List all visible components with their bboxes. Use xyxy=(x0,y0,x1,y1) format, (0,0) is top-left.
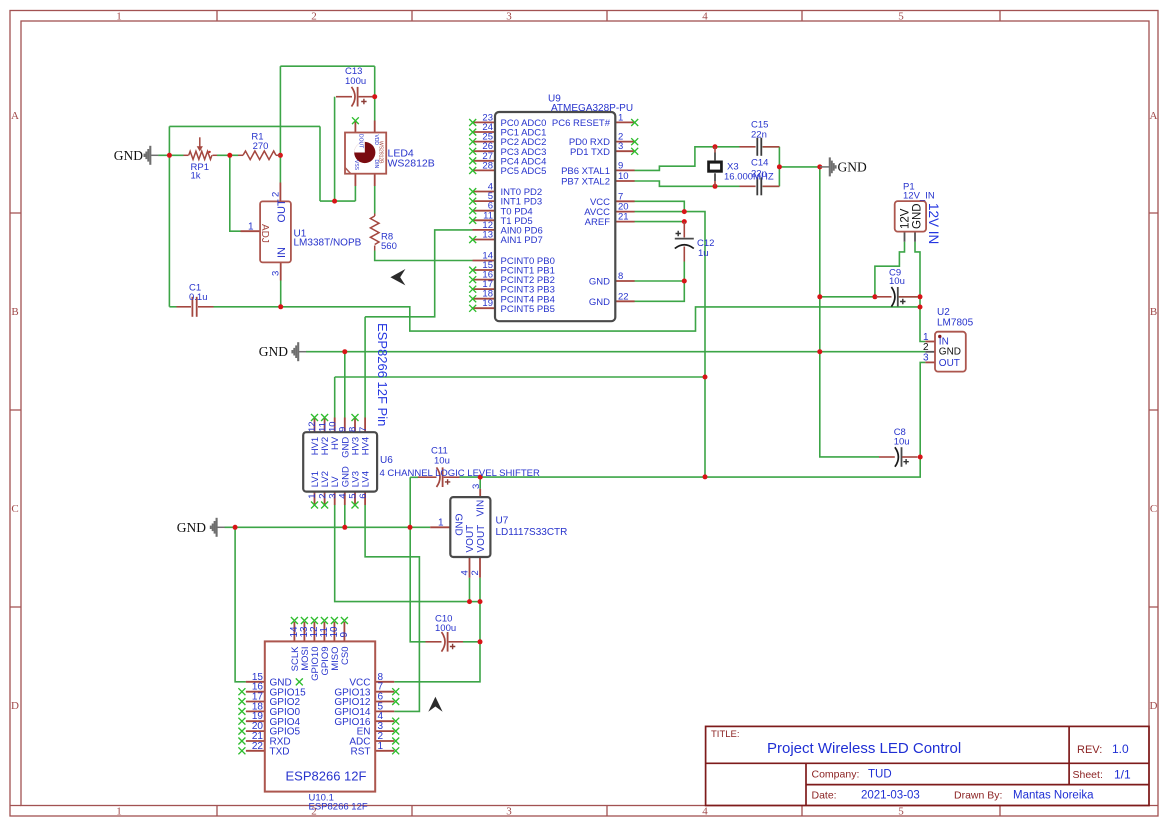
level shifter U6 no-connect X marks xyxy=(311,414,359,509)
junction AREF / C12 column xyxy=(682,219,687,224)
ground GND3 xyxy=(211,518,225,537)
module top pin names rotated xyxy=(290,646,351,681)
svg-text:1u: 1u xyxy=(698,248,709,259)
svg-text:GND: GND xyxy=(939,347,961,358)
module left pin names xyxy=(270,677,307,757)
wire C12 bottom to GND pin8 xyxy=(635,262,685,302)
junction U7 VOUT pin4 / 3V3 row xyxy=(467,599,472,604)
level shifter U6 top pin numbers xyxy=(307,421,369,432)
svg-text:C14: C14 xyxy=(751,158,768,169)
junction 5V row / VCC column xyxy=(703,474,708,479)
svg-text:LM338T/NOPB: LM338T/NOPB xyxy=(294,238,362,249)
junction GND3 row / U7 GND xyxy=(408,525,413,530)
svg-text:13: 13 xyxy=(482,230,493,241)
svg-text:12V_IN: 12V_IN xyxy=(903,191,935,202)
svg-text:5: 5 xyxy=(898,806,904,818)
wire C11 left stub xyxy=(410,476,418,478)
svg-text:DOUT: DOUT xyxy=(357,134,363,148)
svg-text:5: 5 xyxy=(898,11,904,23)
svg-text:Project Wireless LED Control: Project Wireless LED Control xyxy=(767,740,961,757)
junction C13 left column / LED4 VSS row xyxy=(332,199,337,204)
MCU U9 pin stubs right xyxy=(615,122,634,301)
svg-text:ESP8266 12F Pin: ESP8266 12F Pin xyxy=(375,323,390,426)
capacitor C11 10u xyxy=(418,467,460,487)
ground GND1 xyxy=(145,146,159,165)
wire AREF row xyxy=(635,221,685,223)
no-connect X inside ESP next to GND xyxy=(296,678,303,685)
svg-text:IN: IN xyxy=(276,247,288,258)
wire GND2 row xyxy=(306,351,925,353)
svg-text:1: 1 xyxy=(378,741,384,752)
svg-text:2: 2 xyxy=(271,192,282,197)
capacitor C10 100u xyxy=(426,632,464,652)
svg-text:4: 4 xyxy=(702,11,708,23)
wire C13 left vertical xyxy=(334,97,336,201)
svg-text:GND: GND xyxy=(589,277,610,288)
wire AVCC row xyxy=(635,211,685,213)
svg-text:GND: GND xyxy=(114,148,143,163)
wire GND pin8 row xyxy=(635,280,685,282)
wire OUT net vertical x280 xyxy=(279,66,281,182)
title block xyxy=(706,726,1149,805)
wire RP1 tap to U1 ADJ xyxy=(230,155,241,231)
svg-text:21: 21 xyxy=(618,212,629,223)
junction GND pin8 / C12 bottom xyxy=(682,279,687,284)
wire LED4 DIN down to R8 xyxy=(374,186,376,214)
svg-text:19: 19 xyxy=(482,298,493,309)
svg-text:9: 9 xyxy=(339,632,350,638)
wire LED4 VSS stub to row xyxy=(354,186,356,201)
level shifter U6 bottom pin numbers xyxy=(307,494,369,499)
MCU U9 left pin numbers xyxy=(482,112,493,309)
wire C13 right to dot xyxy=(373,96,375,98)
svg-text:WS2812B: WS2812B xyxy=(377,141,383,164)
wire GND4 vertical down to C8 xyxy=(820,167,879,457)
svg-text:TITLE:: TITLE: xyxy=(711,729,740,740)
wire GND3 row xyxy=(225,526,431,528)
ground GND2 xyxy=(292,342,306,361)
capacitor C15 22n xyxy=(740,138,780,156)
module U10.1 ESP8266 12F pin stubs top xyxy=(294,622,344,641)
MCU U9 right pin names xyxy=(552,118,611,308)
junction AVCC / C12 top xyxy=(682,209,687,214)
svg-text:1: 1 xyxy=(618,112,623,123)
svg-text:ADJ: ADJ xyxy=(259,224,270,243)
cursor arrow near ESP GPIO14 xyxy=(428,697,442,712)
regulator U2 body xyxy=(935,332,966,372)
wire top row y66 xyxy=(280,65,374,67)
svg-text:2: 2 xyxy=(311,11,317,23)
capacitor C14 22n xyxy=(740,177,780,195)
svg-text:3: 3 xyxy=(271,271,282,276)
wire C13 dot down to LED4 VDD xyxy=(374,66,376,120)
capacitor C8 10u xyxy=(879,447,918,467)
wire GND1 row left segment xyxy=(158,154,183,156)
junction GND2 row / GND4 column xyxy=(817,349,822,354)
wire U6 HV vertical xyxy=(334,377,336,418)
wire U9 pin9 to crystal xyxy=(635,147,740,171)
resistor R8 560 xyxy=(370,214,379,251)
svg-text:2021-03-03: 2021-03-03 xyxy=(861,790,920,802)
wire U6 LV vertical to 3V3 row xyxy=(335,505,470,602)
module U10.1 pin stubs left xyxy=(246,682,265,751)
svg-text:D: D xyxy=(1150,700,1158,712)
no-connect X on LED4 DOUT xyxy=(352,117,359,124)
svg-text:1: 1 xyxy=(438,517,444,528)
svg-text:TXD: TXD xyxy=(270,746,290,757)
svg-text:4: 4 xyxy=(702,806,708,818)
resistor R1 270 xyxy=(238,151,280,160)
svg-text:PB7 XTAL2: PB7 XTAL2 xyxy=(561,177,610,188)
svg-text:2: 2 xyxy=(470,570,481,575)
junction C9 left / P1 12V xyxy=(872,294,877,299)
regulator U7 pin stubs xyxy=(430,489,480,578)
svg-text:1k: 1k xyxy=(191,171,201,182)
wire U9 pin10 to crystal xyxy=(635,181,740,186)
level shifter U6 pin stubs xyxy=(315,418,366,506)
wire C8 to U2 OUT xyxy=(920,362,925,457)
resistor RP1 1k potentiometer xyxy=(184,137,218,159)
wire 12V row xyxy=(214,307,921,331)
svg-text:U2: U2 xyxy=(937,307,950,318)
junction GND2 row / U6 GND top xyxy=(342,349,347,354)
wire C10 right xyxy=(463,641,480,643)
wire U6 GND bottom vertical xyxy=(344,505,346,527)
wire C11 left corner xyxy=(410,477,425,642)
svg-text:1: 1 xyxy=(116,11,122,23)
svg-text:28: 28 xyxy=(482,160,493,171)
svg-text:9: 9 xyxy=(618,160,623,171)
wire AVCC to long vertical xyxy=(684,212,705,477)
svg-text:1: 1 xyxy=(248,221,254,232)
svg-text:RST: RST xyxy=(351,746,371,757)
capacitor C13 100u xyxy=(336,87,373,107)
junction 12V row / U2 IN column xyxy=(918,305,923,310)
svg-text:PCINT5 PB5: PCINT5 PB5 xyxy=(501,304,555,315)
wire LED4 VSS row xyxy=(320,200,355,202)
junction GND row / C1 branch xyxy=(167,153,172,158)
wire vertical x320 down to LED row xyxy=(319,126,321,201)
svg-text:22: 22 xyxy=(618,291,629,302)
frame row labels xyxy=(11,110,1158,712)
regulator U7 body xyxy=(450,497,490,557)
wire 3V3 riser xyxy=(470,601,481,603)
svg-text:LV4: LV4 xyxy=(361,471,372,487)
svg-text:AIN1 PD7: AIN1 PD7 xyxy=(501,235,543,246)
junction C11 right / U7 VIN xyxy=(478,475,483,480)
wire C9 row left xyxy=(820,296,876,298)
svg-text:22n: 22n xyxy=(751,130,767,141)
wire U7 VOUT pins down xyxy=(470,578,481,602)
svg-text:12V IN: 12V IN xyxy=(926,203,941,244)
wire U6 HV4 vertical xyxy=(364,317,366,418)
cursor arrow near U9 pin14 xyxy=(390,269,405,285)
capacitor C12 1u xyxy=(675,222,694,262)
svg-text:Date:: Date: xyxy=(812,790,837,802)
wire U6 LV4 to GPIO14 xyxy=(365,505,419,711)
svg-text:D: D xyxy=(11,700,19,712)
svg-text:12V: 12V xyxy=(899,208,911,229)
junction C10 right / 3V3 column xyxy=(478,639,483,644)
svg-text:6: 6 xyxy=(358,494,369,499)
module right pin numbers xyxy=(378,672,384,752)
svg-text:CS0: CS0 xyxy=(340,647,351,665)
wire U6 GND top vertical xyxy=(344,352,346,418)
module U10.1 ESP8266 body xyxy=(265,641,375,791)
wire row y126 xyxy=(169,125,320,127)
svg-text:PC6 RESET#: PC6 RESET# xyxy=(552,118,611,129)
wire C1 left xyxy=(169,306,176,308)
svg-text:VOUT: VOUT xyxy=(476,525,487,553)
wire GND3 to ESP GND pin xyxy=(235,527,246,682)
junction RP1-R1 / U1 ADJ tap xyxy=(227,153,232,158)
svg-text:270: 270 xyxy=(253,141,269,152)
wire RP1 to R1 xyxy=(217,154,238,156)
wire R8 bottom to U9 pin14 xyxy=(375,251,473,261)
junction C9 left / GND4 column xyxy=(817,294,822,299)
svg-text:4: 4 xyxy=(459,570,470,575)
svg-text:B: B xyxy=(11,306,18,318)
svg-text:3: 3 xyxy=(506,806,512,818)
svg-text:PC5 ADC5: PC5 ADC5 xyxy=(501,166,547,177)
svg-text:22: 22 xyxy=(252,741,264,752)
junction C9 right / P1 GND column xyxy=(918,294,923,299)
level shifter U6 top pin names xyxy=(310,436,372,458)
junction U7 VOUT pin2 / 3V3 row xyxy=(478,599,483,604)
wire vertical GND row to C1 left xyxy=(168,126,170,306)
svg-text:PD1 TXD: PD1 TXD xyxy=(570,147,610,158)
svg-text:REV:: REV: xyxy=(1077,744,1102,756)
wire C9 right to riser xyxy=(899,296,920,298)
wire VCC pin7 to C12 column xyxy=(635,201,685,211)
svg-text:GND: GND xyxy=(589,297,610,308)
wire HV row y377 xyxy=(335,376,705,378)
junction C8 right / U2 OUT column xyxy=(918,455,923,460)
regulator U1 LM338T/NOPB xyxy=(241,183,291,281)
module U10.1 pin stubs right xyxy=(375,682,394,751)
svg-text:Mantas Noreika: Mantas Noreika xyxy=(1013,790,1094,802)
junction C13 right / LED4 VDD xyxy=(372,94,377,99)
svg-text:1.0: 1.0 xyxy=(1112,742,1129,756)
module left pin numbers xyxy=(252,672,264,752)
junction XTAL1 / C15 xyxy=(713,144,718,149)
svg-text:100u: 100u xyxy=(435,623,456,634)
ground GND4 xyxy=(820,157,836,176)
svg-text:100u: 100u xyxy=(345,76,366,87)
svg-text:A: A xyxy=(11,110,19,122)
MCU U9 ATMEGA328P-PU pin stubs left xyxy=(473,122,496,308)
junction GND3 row / ESP GND column xyxy=(233,525,238,530)
svg-text:0.1u: 0.1u xyxy=(189,292,208,303)
wire C15 row into vertical xyxy=(763,147,780,187)
svg-text:OUT: OUT xyxy=(276,199,288,223)
svg-text:VIN: VIN xyxy=(476,500,487,517)
svg-text:7: 7 xyxy=(358,427,369,432)
svg-text:VOUT: VOUT xyxy=(465,525,476,553)
svg-text:4 CHANNEL LOGIC LEVEL SHIFTER: 4 CHANNEL LOGIC LEVEL SHIFTER xyxy=(380,468,540,479)
svg-text:Drawn By:: Drawn By: xyxy=(954,790,1002,802)
svg-text:3: 3 xyxy=(923,353,929,364)
MCU U9 body xyxy=(495,112,615,321)
MCU U9 no-connect X marks left xyxy=(469,119,476,312)
svg-text:A: A xyxy=(1150,110,1158,122)
svg-text:10u: 10u xyxy=(434,456,450,467)
frame column labels top xyxy=(116,11,904,23)
regulator U2 LM7805 pin stubs xyxy=(925,342,935,363)
svg-text:LM7805: LM7805 xyxy=(937,318,974,329)
MCU U9 right pin numbers xyxy=(618,112,629,302)
wire 5V row y477 xyxy=(460,457,921,477)
junction GND3 row / U6 GND bottom xyxy=(342,525,347,530)
svg-text:PB6 XTAL1: PB6 XTAL1 xyxy=(561,166,610,177)
junction GND4 column top xyxy=(817,164,822,169)
capacitor C1 0.1u xyxy=(177,297,214,317)
MCU U9 no-connect X marks right xyxy=(631,119,638,155)
svg-text:ESP8266 12F: ESP8266 12F xyxy=(309,802,368,813)
wire P1 GND pin path xyxy=(915,242,925,342)
junction R1 right / U1 OUT column xyxy=(278,153,283,158)
svg-text:10u: 10u xyxy=(894,437,910,448)
MCU U9 left pin names xyxy=(501,118,555,315)
wire crystal caps right vertical xyxy=(778,147,780,187)
svg-text:16.000MHZ: 16.000MHZ xyxy=(724,172,774,183)
frame column labels bottom xyxy=(116,806,904,818)
LED LED4 WS2812B xyxy=(345,121,386,187)
svg-text:HV4: HV4 xyxy=(361,437,372,455)
junction U1 IN / 12V row xyxy=(278,304,283,309)
junction caps right / GND wire xyxy=(777,164,782,169)
wire P1 12V pin path xyxy=(875,242,905,297)
svg-text:LD1117S33CTR: LD1117S33CTR xyxy=(496,527,568,538)
wire U7 VIN riser xyxy=(479,477,481,489)
junction HV row / VCC column xyxy=(703,375,708,380)
svg-text:GND: GND xyxy=(259,344,288,359)
svg-text:ESP8266 12F: ESP8266 12F xyxy=(286,769,367,784)
level shifter U6 body xyxy=(303,432,377,491)
wire GND4 row xyxy=(779,166,819,168)
svg-text:TUD: TUD xyxy=(868,769,892,781)
svg-text:10: 10 xyxy=(618,171,629,182)
svg-text:2: 2 xyxy=(923,342,929,353)
crystal X3 16.000MHZ xyxy=(707,147,723,187)
svg-text:1/1: 1/1 xyxy=(1114,768,1131,782)
wire U9 pin12 net xyxy=(365,230,472,317)
module top pin numbers rotated xyxy=(289,626,350,638)
svg-text:GND: GND xyxy=(912,203,924,229)
wire VOUT down to C10 and VCC row xyxy=(394,602,480,682)
svg-text:C: C xyxy=(11,503,18,515)
wire U1 IN down to 12V row xyxy=(280,281,282,307)
junction XTAL2 / C14 xyxy=(713,184,718,189)
svg-text:Company:: Company: xyxy=(812,769,860,781)
svg-text:3: 3 xyxy=(471,484,482,489)
svg-text:OUT: OUT xyxy=(939,358,960,369)
capacitor C9 10u xyxy=(876,287,917,307)
module right pin names xyxy=(334,677,371,757)
svg-text:Sheet:: Sheet: xyxy=(1073,769,1103,781)
svg-text:3: 3 xyxy=(618,141,623,152)
svg-text:U6: U6 xyxy=(380,455,393,466)
svg-text:C: C xyxy=(1150,503,1157,515)
svg-text:VSS: VSS xyxy=(353,160,359,171)
svg-text:B: B xyxy=(1150,306,1157,318)
svg-text:U7: U7 xyxy=(496,516,509,527)
svg-text:AREF: AREF xyxy=(585,217,611,228)
module no-connect X marks top xyxy=(291,617,348,624)
svg-text:GND: GND xyxy=(838,159,867,174)
svg-text:10u: 10u xyxy=(889,276,905,287)
svg-text:GND: GND xyxy=(177,520,206,535)
svg-text:1: 1 xyxy=(116,806,122,818)
connector P1 12V_IN xyxy=(895,201,926,242)
svg-text:GND: GND xyxy=(453,514,464,536)
svg-text:WS2812B: WS2812B xyxy=(388,158,435,170)
level shifter U6 bottom pin names xyxy=(310,466,372,487)
svg-text:3: 3 xyxy=(506,11,512,23)
module no-connect X marks right xyxy=(392,688,399,754)
svg-text:8: 8 xyxy=(618,271,623,282)
module no-connect X marks left xyxy=(238,688,245,754)
svg-text:560: 560 xyxy=(381,241,397,252)
